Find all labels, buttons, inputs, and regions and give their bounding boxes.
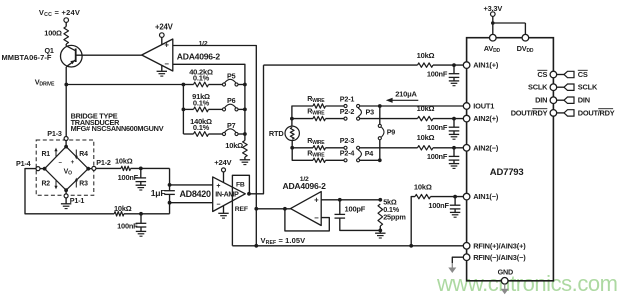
resistor 10kohm AIN2-	[418, 146, 464, 150]
wire AIN1+ row	[264, 64, 418, 66]
op-amp U1 1/2 ADA4096-2	[142, 39, 173, 71]
pin AIN2(-)	[463, 143, 499, 152]
resistor R1 arrow	[55, 150, 57, 158]
ground 5kohm	[375, 233, 385, 238]
svg-text:100nF: 100nF	[427, 123, 448, 132]
capacitor 100nF P1-2 row	[136, 168, 147, 185]
svg-text:DOUT/RDY: DOUT/RDY	[511, 108, 548, 117]
wire row P2-4 to P9 node	[360, 159, 380, 161]
junction bridge left	[43, 167, 47, 171]
junction divider right rail row P6	[243, 108, 247, 112]
junction divider right rail row P5	[243, 83, 247, 87]
svg-text:10kΩ: 10kΩ	[114, 204, 132, 213]
resistor 91kohm 0.1% row P6	[183, 107, 222, 112]
resistor R3 arrow	[75, 180, 77, 188]
resistor RWIRE row P2-3	[313, 146, 344, 150]
svg-text:AIN2(+): AIN2(+)	[473, 114, 499, 123]
wire VREF branch up to 10kohm AIN1-	[411, 197, 415, 246]
node VCC terminal	[64, 18, 69, 23]
svg-text:0.1%: 0.1%	[193, 123, 210, 132]
pin AVDD	[484, 34, 501, 53]
svg-text:R1: R1	[42, 151, 51, 158]
wire VDRIVE to bridge P1-3	[65, 85, 67, 137]
junction IOUT1 P9 node	[378, 104, 382, 108]
svg-text:210μA: 210μA	[395, 90, 417, 99]
ground 100nF P1-4 row	[136, 231, 146, 236]
resistor 10kohm P1-4 row	[114, 212, 169, 216]
wire row P2-2 to 10kohm AIN2+	[360, 118, 418, 120]
junction AD8420 +in	[168, 183, 172, 187]
wire U1 noninverting input to VREF vertical	[173, 46, 256, 209]
current arrow 210uA	[386, 98, 419, 103]
junction AD8420 -in	[168, 201, 172, 205]
junction bridge top	[64, 145, 68, 149]
capacitor 100nF P1-4 row	[136, 214, 147, 232]
svg-text:100pF: 100pF	[345, 205, 366, 214]
ground 100nF AIN1+	[449, 81, 459, 86]
svg-text:P5: P5	[227, 71, 236, 80]
svg-text:GND: GND	[498, 267, 513, 276]
resistor 100ohm	[64, 27, 69, 45]
svg-text:RFIN(−)/AIN3(−): RFIN(−)/AIN3(−)	[473, 253, 526, 262]
junction divider left rail row P6	[182, 108, 186, 112]
bridge dashed enclosure	[36, 140, 94, 195]
svg-text:AD8420: AD8420	[179, 189, 211, 199]
svg-text:+24V: +24V	[214, 158, 232, 167]
wire U3 feedback loop	[285, 209, 329, 231]
junction P1-2 RC node	[139, 167, 143, 171]
svg-text:10kΩ: 10kΩ	[417, 104, 435, 113]
wire Q1 emitter to VDRIVE node	[65, 67, 67, 85]
pin SCLK	[528, 83, 598, 92]
wire -in node down to bottom row	[169, 203, 171, 214]
svg-text:P1-2: P1-2	[96, 158, 111, 167]
svg-text:RTD: RTD	[269, 129, 284, 138]
resistor 140kohm 0.1% row P7	[183, 132, 222, 137]
resistor 10kohm divider to ground	[243, 141, 248, 160]
pin FB box of AD8420	[232, 175, 249, 246]
svg-text:100nF: 100nF	[118, 173, 139, 182]
junction 5kohm top	[378, 198, 382, 202]
svg-text:−: −	[314, 213, 319, 222]
svg-text:100Ω: 100Ω	[44, 28, 62, 37]
power +24V terminal for U1	[160, 33, 165, 38]
svg-text:+: +	[71, 159, 75, 166]
wire U3 noninverting input to 5kohm node	[321, 199, 380, 201]
IC U4 AD7793 body	[467, 38, 554, 281]
resistor 10kohm AIN1+	[418, 63, 464, 67]
junction AD8420 output FB	[247, 192, 251, 196]
capacitor 1uF across inputs	[164, 185, 175, 203]
bridge diamond arms R1 R2 R3 R4	[45, 147, 89, 191]
resistor RWIRE row P2-1	[313, 104, 344, 108]
svg-text:P1-1: P1-1	[70, 196, 85, 205]
svg-text:P2-1: P2-1	[340, 94, 355, 103]
ground arrow GND	[501, 284, 509, 294]
svg-text:+3.3V: +3.3V	[484, 4, 503, 13]
svg-text:10kΩ: 10kΩ	[414, 183, 432, 192]
resistor 10kohm AIN1-	[415, 194, 463, 198]
ground 100nF P1-2 row	[136, 185, 146, 190]
wire to AD8420 noninverting input	[170, 168, 213, 185]
svg-text:AIN2(−): AIN2(−)	[473, 143, 499, 152]
svg-text:P7: P7	[227, 121, 236, 130]
svg-text:SCLK: SCLK	[578, 83, 598, 92]
svg-text:10kΩ: 10kΩ	[417, 51, 435, 60]
svg-text:ADA4096-2: ADA4096-2	[177, 52, 221, 62]
svg-text:0.1%: 0.1%	[193, 74, 210, 83]
capacitor 100pF	[335, 200, 381, 231]
RTD sensor	[285, 126, 299, 140]
svg-text:P3: P3	[366, 108, 375, 117]
wire +3.3V to AVDD DVDD	[491, 16, 525, 34]
pin CS	[537, 70, 588, 79]
resistor 10kohm P1-2 row	[121, 166, 170, 170]
junction AIN2- RC	[452, 146, 456, 150]
wire REF node to U3 output	[256, 208, 290, 210]
pin IOUT1	[463, 102, 494, 111]
wire VREF rail	[232, 245, 463, 247]
svg-text:0.1%: 0.1%	[193, 99, 210, 108]
wire RTD bottom branch	[292, 141, 313, 161]
junction divider left rail row P5	[182, 83, 186, 87]
jumper P7	[222, 129, 244, 136]
svg-text:P2-3: P2-3	[340, 136, 355, 145]
jumper P5	[222, 79, 244, 86]
svg-text:CS: CS	[537, 70, 547, 79]
resistor R2 arrow	[55, 180, 57, 188]
wire R 100ohm to Q1 collector	[65, 44, 67, 46]
svg-text:1μF: 1μF	[151, 188, 166, 198]
resistor 10kohm AIN2+	[418, 116, 464, 120]
svg-text:MFG# NSCSANN600MGUNV: MFG# NSCSANN600MGUNV	[71, 124, 164, 133]
svg-text:25ppm: 25ppm	[383, 213, 406, 222]
ground 100nF AIN1-	[450, 212, 460, 217]
wire +24V to AD8420	[223, 172, 225, 183]
svg-text:RFIN(+)/AIN3(+): RFIN(+)/AIN3(+)	[473, 241, 526, 250]
wire U1 V- to ground	[161, 65, 163, 71]
capacitor 100nF AIN1+	[449, 65, 460, 81]
power +24V terminal for AD8420	[214, 158, 232, 172]
wire P1-4 loop left and down	[25, 169, 114, 214]
capacitor 100nF AIN2-	[449, 148, 460, 164]
wire REF vertical	[255, 209, 257, 246]
wire row P2-3 stub	[292, 147, 313, 149]
junction VREF at REF vertical	[254, 244, 258, 248]
op-amp U3 1/2 ADA4096-2	[291, 192, 322, 226]
wire row P2-3 to 10kohm AIN2-	[360, 147, 418, 149]
junction bridge right	[86, 167, 90, 171]
wire P1-1 to ground	[65, 198, 67, 204]
ground for U1	[157, 71, 167, 76]
pin RFIN(-)/AIN3(-)	[463, 253, 526, 262]
pin GND	[498, 267, 513, 284]
junction VREF at AIN1- branch	[409, 244, 413, 248]
resistor 5kohm 0.1% 25ppm	[378, 204, 383, 230]
wire row P2-2 stub	[292, 118, 313, 120]
wire RFIN- to ground arrow	[452, 257, 463, 263]
junction U3 output feedback	[283, 207, 287, 211]
wire RTD top branch	[292, 106, 313, 126]
junction REF vertical	[254, 207, 258, 211]
junction AIN1+ RC	[452, 63, 456, 67]
svg-text:DIN: DIN	[578, 96, 590, 105]
svg-text:AIN1(+): AIN1(+)	[473, 61, 499, 70]
resistor 40.2kohm 0.1% row P5	[183, 82, 222, 87]
svg-text:R2: R2	[42, 181, 51, 188]
pin DIN	[535, 96, 590, 105]
svg-text:+24V: +24V	[155, 23, 174, 32]
resistor RWIRE row P2-2	[313, 116, 344, 120]
wire AD8420 to ground	[223, 206, 225, 213]
svg-text:R4: R4	[79, 151, 88, 158]
junction 5kohm ground node	[378, 229, 382, 233]
jumper P2-1	[344, 104, 360, 107]
wire row P2-1 to IOUT1	[360, 105, 464, 107]
svg-text:100nF: 100nF	[117, 221, 138, 230]
svg-text:+: +	[164, 41, 169, 50]
pin DOUT/RDY	[511, 108, 615, 117]
terminal P1-2	[92, 158, 111, 170]
pin DVDD	[517, 34, 534, 53]
junction P1-4 RC node	[139, 212, 143, 216]
svg-text:SCLK: SCLK	[528, 83, 548, 92]
junction AIN2+ RC	[452, 117, 456, 121]
wire AD8420 output to AIN1+ branch	[249, 65, 264, 194]
svg-text:10kΩ: 10kΩ	[417, 133, 435, 142]
svg-text:IOUT1: IOUT1	[473, 102, 494, 111]
svg-text:IN-AMP: IN-AMP	[215, 190, 239, 199]
svg-text:1/2: 1/2	[199, 40, 208, 47]
resistor RWIRE row P2-4	[313, 158, 344, 162]
svg-text:MMBTA06-7-F: MMBTA06-7-F	[2, 53, 52, 62]
ground 100nF AIN2-	[449, 164, 459, 169]
ground 100nF AIN2+	[449, 134, 459, 139]
wire VDRIVE to divider rail	[66, 84, 183, 86]
svg-text:100nF: 100nF	[427, 152, 448, 161]
pin AIN1(+)	[463, 61, 499, 70]
svg-text:P2-2: P2-2	[340, 107, 355, 116]
svg-text:FB: FB	[236, 182, 245, 189]
wire Q1 base to op-amp U1 output	[76, 54, 142, 56]
svg-text:CS: CS	[578, 70, 588, 79]
jumper P2-4	[344, 159, 360, 162]
wire to AD8420 inverting input	[170, 202, 213, 204]
svg-text:AIN1(−): AIN1(−)	[473, 192, 499, 201]
svg-text:DIN: DIN	[535, 96, 547, 105]
ground arrow RFIN-	[448, 263, 456, 273]
svg-text:P9: P9	[387, 127, 396, 136]
power +3.3V terminal	[491, 12, 496, 17]
jumper P9	[378, 106, 384, 160]
junction P2-4 P9 node	[378, 158, 382, 162]
capacitor 100nF AIN2+	[449, 119, 460, 135]
svg-text:VO: VO	[64, 168, 72, 176]
svg-text:100nF: 100nF	[427, 69, 448, 78]
node VDRIVE junction	[64, 83, 68, 87]
pin AIN1(-)	[463, 192, 499, 201]
svg-text:P2-4: P2-4	[340, 149, 355, 158]
pin AIN2(+)	[463, 114, 499, 123]
svg-text:10kΩ: 10kΩ	[225, 141, 243, 150]
svg-text:ADA4096-2: ADA4096-2	[283, 181, 327, 191]
junction 100pF node	[338, 198, 342, 202]
ground divider 10kohm	[240, 160, 250, 165]
wire 5kohm to ground	[379, 230, 381, 233]
svg-text:R3: R3	[79, 181, 88, 188]
svg-text:P1-4: P1-4	[16, 159, 31, 168]
svg-text:www.cntronics.com: www.cntronics.com	[436, 271, 618, 296]
transistor Q1	[61, 45, 83, 67]
resistor R4 arrow	[75, 150, 77, 158]
jumper bracket P4	[358, 150, 361, 159]
wire VCC to R 100ohm	[65, 22, 67, 26]
svg-text:−: −	[164, 60, 169, 69]
svg-text:REF: REF	[235, 206, 248, 213]
terminal P1-1	[64, 194, 84, 205]
wire U1 inverting input to divider right rail	[173, 64, 245, 140]
junction RTD bottom row P2-3	[290, 146, 294, 150]
ground AD8420	[218, 213, 228, 218]
svg-text:DOUT/RDY: DOUT/RDY	[578, 108, 615, 117]
wire P1-2 to 10kohm	[96, 167, 121, 169]
capacitor 100nF AIN1-	[450, 197, 461, 213]
svg-text:−: −	[216, 201, 220, 208]
junction bridge bottom	[64, 188, 68, 192]
terminal P1-4	[16, 159, 40, 171]
jumper P6	[222, 104, 244, 111]
jumper P2-2	[344, 117, 360, 120]
in-amp U2 AD8420	[213, 177, 246, 212]
junction RTD top row P2-2	[290, 117, 294, 121]
svg-text:P1-3: P1-3	[47, 129, 62, 138]
wire P1-3 to bridge top	[65, 141, 67, 147]
svg-text:100nF: 100nF	[428, 201, 449, 210]
wire bridge left to P1-4	[40, 168, 45, 170]
junction AIN1- RC	[453, 195, 457, 199]
pin RFIN(+)/AIN3(+)	[463, 241, 526, 250]
wire +24V to U1 V+	[161, 37, 163, 44]
wire divider left rail	[182, 85, 184, 135]
svg-text:AD7793: AD7793	[490, 167, 524, 178]
svg-text:P6: P6	[227, 96, 236, 105]
jumper bracket P3	[358, 108, 361, 117]
terminal P1-3	[47, 129, 68, 141]
wire bridge bottom to P1-1	[65, 190, 67, 194]
svg-text:+: +	[314, 196, 319, 205]
wire bridge right to P1-2	[88, 168, 92, 170]
svg-text:10kΩ: 10kΩ	[115, 157, 133, 166]
jumper P2-3	[344, 146, 360, 149]
ground P1-1	[61, 204, 71, 209]
junction divider right rail row P7	[243, 132, 247, 136]
svg-text:P4: P4	[365, 149, 374, 158]
